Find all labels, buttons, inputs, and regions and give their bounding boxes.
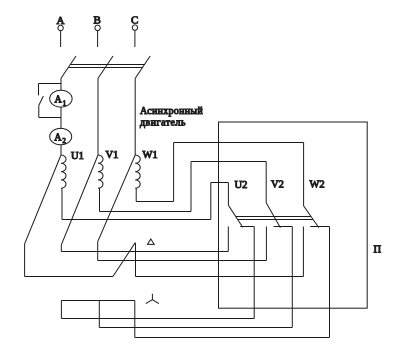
switch QS1 blade A [61, 56, 76, 78]
wire diagonal V1 to delta [61, 155, 98, 245]
svg-text:Асинхронный: Асинхронный [140, 106, 203, 117]
wire bus U2 horizontal [62, 219, 211, 221]
wire phase A to ammeter [60, 78, 62, 91]
switch QS1 blade B [98, 56, 113, 78]
svg-text:А: А [54, 132, 62, 143]
ammeter A2 [50, 128, 72, 144]
wire vertical left [24, 244, 26, 277]
bypass switch bottom wire [39, 117, 61, 119]
svg-text:1: 1 [63, 100, 67, 108]
star contact bar W2 [310, 226, 329, 228]
wire riser U2 [210, 183, 212, 220]
wire coil V bottom down [99, 188, 101, 211]
star point drop U [60, 301, 62, 319]
wire bottom bus 1 [61, 318, 254, 320]
svg-text:W1: W1 [143, 150, 158, 161]
svg-text:U2: U2 [235, 180, 248, 191]
switch QS1 linkage bar bottom [69, 67, 143, 69]
wire A2 to node U1 [60, 145, 62, 155]
wire feed U2 top [211, 182, 229, 184]
svg-text:П: П [374, 245, 382, 256]
svg-text:W2: W2 [310, 180, 325, 191]
wire feed W2 top [174, 142, 304, 144]
wire feed V2 top [191, 161, 266, 163]
svg-text:2: 2 [62, 137, 66, 145]
star contact bar U2 [240, 226, 254, 228]
wire horizontal W1 to V2 contact [98, 260, 267, 262]
wire horizontal to W2 contact [136, 276, 304, 278]
wire vertical V1 [60, 245, 62, 252]
wire drop to W2 pivot [303, 143, 305, 206]
wire drop to V2 pivot [265, 162, 267, 203]
switch QS1 blade C [135, 56, 150, 78]
terminal A circle [58, 25, 63, 30]
wire A1 to A2 [60, 107, 62, 128]
wire diagonal U1 to delta [25, 155, 61, 244]
winding coil W1-W2 [135, 155, 140, 188]
wire horizontal V1 to U2 contact [61, 251, 228, 253]
delta switch contact wire [135, 243, 137, 277]
star point drop V [98, 301, 100, 328]
bypass switch left wire lower [38, 105, 40, 117]
wire drop star V2 [291, 227, 293, 328]
wire bottom bus 3 [135, 337, 330, 339]
svg-text:V1: V1 [106, 150, 119, 161]
delta contact stub U2 [227, 227, 229, 252]
wire vertical W1 [97, 242, 99, 261]
wire phase C to node W1 [134, 78, 136, 155]
wire riser V2 [190, 162, 192, 212]
winding coil U1-U2 [61, 155, 66, 188]
delta contact stub V2 [265, 227, 267, 261]
winding coil V1-V2 [98, 155, 103, 188]
wire bottom bus 2 [99, 327, 292, 329]
bypass switch top wire [39, 83, 62, 85]
wire coil U bottom down [61, 188, 63, 219]
bypass switch left wire upper [38, 84, 40, 96]
svg-text:V2: V2 [271, 180, 284, 191]
switch QS2 linkage bar bottom [238, 219, 313, 221]
wire drop star U2 [253, 227, 255, 319]
switch QS2 blade W2 [304, 206, 319, 228]
terminal C circle [132, 25, 137, 30]
delta symbol [148, 239, 155, 244]
ammeter A1 [50, 90, 72, 107]
wire from terminal A [60, 31, 62, 47]
star point bus [61, 300, 134, 302]
contactor box P [219, 122, 368, 308]
svg-text:двигатель: двигатель [140, 118, 186, 129]
terminal B circle [95, 25, 100, 30]
wire drop star W2 [329, 227, 331, 338]
wire diagonal W1 to delta [98, 155, 136, 242]
switch QS1 linkage bar top [71, 64, 145, 66]
svg-text:U1: U1 [71, 151, 84, 162]
bypass switch blade [39, 96, 44, 105]
star symbol [146, 294, 159, 304]
wire bus V2 horizontal [100, 211, 192, 213]
switch QS2 blade U2 [228, 205, 242, 227]
wire phase B to node V1 [97, 78, 99, 155]
star point drop W [134, 301, 136, 338]
wire bus W2 horizontal [136, 201, 173, 203]
wire from terminal C [134, 30, 136, 47]
wire drop to U2 pivot [227, 183, 229, 206]
switch QS2 linkage bar top [236, 216, 311, 218]
switch QS2 blade V2 [266, 203, 280, 228]
delta contact stub W2 [302, 227, 304, 277]
wire horizontal U1 delta [25, 276, 113, 278]
wire coil W bottom down [135, 188, 137, 201]
star contact bar V2 [274, 226, 293, 228]
wire riser W2 [173, 143, 175, 202]
svg-text:А: А [55, 95, 63, 106]
wire from terminal B [97, 31, 99, 47]
delta switch blade [113, 243, 135, 277]
